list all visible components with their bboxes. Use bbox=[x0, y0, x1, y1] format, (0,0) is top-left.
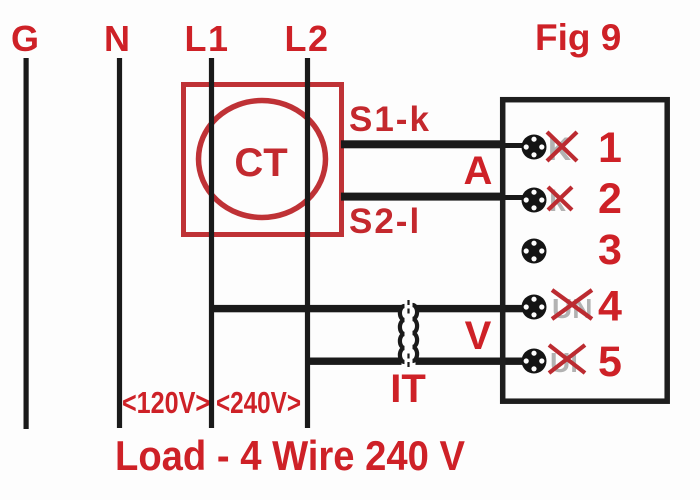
terminal 2 screw bbox=[522, 188, 547, 213]
transformer IT left winding bbox=[400, 306, 405, 362]
CT box (current transformer outline) bbox=[184, 85, 342, 235]
svg-text:4: 4 bbox=[598, 283, 622, 331]
wire S1-k (CT secondary to terminal 1) bbox=[341, 140, 505, 148]
svg-text:CT: CT bbox=[234, 141, 287, 185]
svg-text:UN: UN bbox=[552, 293, 592, 324]
transformer IT core dashes (top) bbox=[407, 300, 409, 317]
red X over terminal 2 bbox=[548, 187, 572, 210]
svg-text:A: A bbox=[464, 149, 493, 193]
terminal 4 screw bbox=[522, 295, 547, 320]
svg-text:L1: L1 bbox=[184, 18, 229, 59]
terminal 3 screw bbox=[522, 239, 547, 264]
red X over terminal 4 bbox=[552, 290, 592, 319]
svg-text:V: V bbox=[465, 314, 492, 358]
wire S2-l (CT secondary to terminal 2) bbox=[341, 193, 505, 201]
svg-text:<120V>: <120V> bbox=[122, 385, 210, 420]
svg-text:N: N bbox=[104, 18, 130, 59]
transformer IT core dashes (bottom) bbox=[407, 354, 409, 368]
svg-text:2: 2 bbox=[598, 175, 622, 223]
wire L2 vertical bbox=[305, 58, 310, 428]
svg-text:<240V>: <240V> bbox=[216, 385, 301, 420]
svg-text:Fig 9: Fig 9 bbox=[535, 17, 621, 58]
svg-text:1: 1 bbox=[598, 124, 622, 172]
terminal 5 screw bbox=[522, 349, 547, 374]
svg-text:G: G bbox=[11, 18, 39, 59]
wire L1 to terminal 4 (left segment) bbox=[209, 305, 402, 312]
red X over terminal 1 bbox=[547, 132, 577, 161]
wire N vertical bbox=[117, 58, 122, 428]
svg-text:S2-l: S2-l bbox=[349, 202, 421, 241]
wire to terminal 5 (right segment) bbox=[416, 358, 525, 365]
wire G vertical bbox=[24, 58, 29, 429]
CT circle bbox=[199, 101, 326, 218]
terminal block box bbox=[503, 100, 668, 402]
wire L1 vertical bbox=[209, 58, 214, 428]
wire to terminal 4 (right segment) bbox=[416, 305, 525, 312]
svg-text:Load - 4 Wire 240 V: Load - 4 Wire 240 V bbox=[115, 432, 465, 479]
wire L2 to terminal 5 (left segment) bbox=[306, 358, 402, 365]
svg-text:5: 5 bbox=[598, 338, 622, 386]
transformer IT right winding bbox=[413, 305, 418, 361]
svg-text:IT: IT bbox=[390, 367, 426, 411]
red X over terminal 5 bbox=[549, 345, 585, 373]
svg-text:3: 3 bbox=[598, 226, 622, 274]
terminal 1 screw bbox=[522, 135, 547, 160]
svg-text:L2: L2 bbox=[284, 18, 329, 59]
svg-text:S1-k: S1-k bbox=[349, 100, 431, 139]
